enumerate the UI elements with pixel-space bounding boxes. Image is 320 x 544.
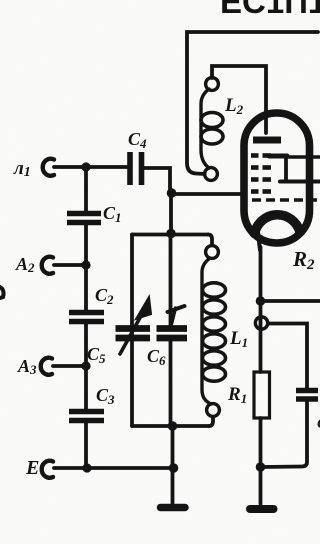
terminal A3 — [41, 358, 52, 375]
node A1 junction — [81, 162, 90, 171]
capacitor C3 — [69, 412, 104, 421]
wire cathode down — [259, 247, 263, 372]
inductor L2 — [206, 78, 219, 91]
node tank-bottom junction — [168, 421, 178, 431]
bypass capacitor — [296, 391, 318, 400]
wire down to ground 1 — [171, 426, 175, 503]
pin terminal circle — [255, 317, 267, 329]
svg-text:Е: Е — [25, 457, 39, 479]
wire corner from L1 bottom — [209, 417, 213, 426]
tube inner grid lead right — [269, 154, 287, 159]
arrow of C5 — [120, 314, 142, 354]
title text (cropped at top) — [220, 0, 320, 20]
wire corner to L1 top — [208, 235, 212, 246]
stray ink mark left edge — [0, 287, 4, 298]
wire down to C1 — [84, 167, 88, 211]
variable capacitor C5 — [116, 329, 151, 339]
wire R1 to ground 2 — [259, 418, 263, 504]
ground 2 — [250, 505, 274, 513]
tube grid dashes — [251, 156, 271, 192]
node cathode junction — [256, 296, 266, 306]
wire top feedback line — [187, 32, 318, 174]
inductor L1 — [206, 246, 219, 259]
node A2 junction — [81, 260, 90, 269]
wire tank left edge (C5 branch) — [130, 235, 134, 427]
node tank-top junction — [166, 229, 176, 239]
capacitor C4 — [130, 152, 142, 185]
node X junction — [167, 188, 177, 198]
node E-ground junction — [169, 463, 179, 473]
wire pin to bypass cap — [268, 324, 307, 389]
wire to R2 (off page) — [261, 299, 320, 303]
node E junction — [82, 463, 91, 472]
node ground2 junction — [256, 462, 266, 472]
trimmer capacitor C6 — [157, 329, 188, 339]
capacitor C1 — [67, 214, 101, 223]
wire C1 to C2 — [84, 225, 88, 310]
wire A3 — [53, 364, 82, 368]
terminal A2 — [42, 257, 53, 274]
wire A1 to C4 — [54, 165, 127, 169]
wire grid lead to tube — [171, 192, 241, 196]
wire tank top edge — [132, 233, 208, 237]
tube anode plate — [253, 137, 281, 144]
terminal E — [42, 461, 53, 478]
capacitor C2 — [69, 313, 104, 322]
tube lower dashed grid — [252, 198, 320, 202]
svg-text:ЕС1П1: ЕС1П1 — [220, 0, 320, 20]
label R2 — [292, 247, 315, 273]
terminal A1 — [43, 159, 54, 176]
node A3 junction — [81, 361, 90, 370]
tube V1 envelope — [244, 113, 310, 243]
tube cathode — [255, 215, 301, 234]
wire tank bottom edge — [132, 424, 209, 428]
trimmer T-mark of C6 — [171, 308, 176, 326]
wire C3 down to E line — [84, 423, 88, 468]
wire L2 top to anode — [212, 66, 266, 133]
wire C4 to node X — [144, 168, 170, 193]
wire C2 to C3 — [84, 324, 88, 409]
ground 1 — [161, 504, 186, 512]
wire node X down — [169, 193, 173, 234]
wire C6 branch — [169, 236, 173, 325]
wire A2 — [54, 263, 82, 267]
resistor R1 — [254, 372, 270, 418]
wire bypass cap to ground node — [262, 401, 307, 467]
partial label at right edge — [317, 416, 320, 432]
wire E line — [54, 466, 174, 470]
